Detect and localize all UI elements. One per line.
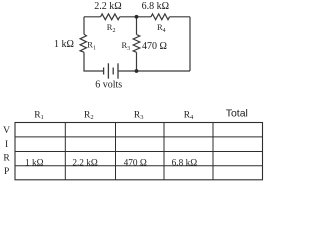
table column line 1 [64, 123, 66, 180]
table outer border [15, 123, 263, 180]
table column line 3 [163, 123, 165, 180]
svg-text:1 kΩ: 1 kΩ [25, 159, 44, 169]
svg-text:1 kΩ: 1 kΩ [54, 39, 74, 50]
table column line 2 [115, 123, 117, 180]
battery B1 first long plate [107, 63, 109, 78]
resistor R2 zigzag (2.2 kOhm, top wire) [101, 14, 120, 20]
table row line 1 [15, 136, 263, 138]
table column line 4 [212, 123, 214, 180]
svg-text:R3: R3 [134, 110, 144, 121]
svg-text:R1: R1 [87, 40, 96, 52]
svg-text:Total: Total [226, 108, 248, 120]
battery B1 left short plate [103, 68, 105, 75]
svg-text:V: V [3, 126, 10, 136]
svg-text:I: I [5, 140, 8, 150]
resistor R3 zigzag (470 Ohm, middle branch) [133, 35, 140, 53]
svg-text:R4: R4 [184, 110, 194, 121]
resistor R1 zigzag (1 kOhm, left branch) [80, 34, 86, 52]
svg-text:R: R [3, 154, 10, 164]
svg-text:R3: R3 [122, 40, 131, 52]
svg-text:6 volts: 6 volts [95, 79, 122, 90]
table row line 3 [15, 165, 263, 167]
wire middle branch upper (node A to R3 top) [136, 17, 138, 35]
node A junction dot (top) [135, 15, 139, 19]
svg-text:6.8 kΩ: 6.8 kΩ [142, 1, 169, 12]
resistor R4 zigzag (6.8 kOhm, top wire right) [151, 14, 170, 20]
wire middle branch lower (R3 bottom to node B) [136, 52, 138, 71]
wire top left segment [84, 16, 101, 18]
svg-text:P: P [4, 167, 9, 177]
wire left vertical (top-left corner to R1 top) [83, 17, 85, 35]
node B junction dot (bottom) [135, 69, 139, 73]
wire left vertical lower (R1 bottom to bottom-left corner) [84, 52, 104, 71]
table row line 2 [15, 150, 263, 152]
wire right vertical [189, 17, 191, 71]
svg-text:2.2 kΩ: 2.2 kΩ [94, 1, 121, 12]
wire top middle segment (R2 to node A) [120, 16, 151, 18]
battery B1 second short plate [112, 68, 114, 75]
svg-text:R4: R4 [157, 22, 166, 34]
svg-text:470 Ω: 470 Ω [142, 41, 167, 52]
svg-text:R2: R2 [84, 110, 94, 121]
svg-text:R2: R2 [107, 22, 116, 34]
wire top right segment (R4 to top-right corner) [170, 16, 191, 18]
wire bottom right segment (battery to node B to bottom-right corner) [118, 70, 190, 72]
svg-text:470 Ω: 470 Ω [124, 159, 147, 169]
svg-text:6.8 kΩ: 6.8 kΩ [172, 159, 198, 169]
svg-text:2.2 kΩ: 2.2 kΩ [72, 159, 98, 169]
svg-text:R1: R1 [34, 110, 44, 121]
battery B1 right long plate [117, 63, 119, 78]
